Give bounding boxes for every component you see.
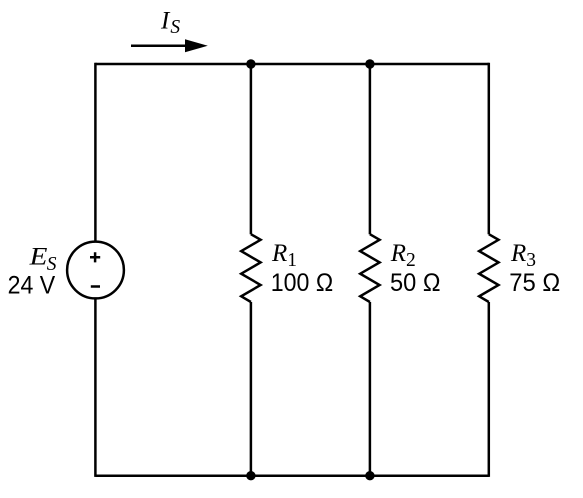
svg-text:R: R [271, 240, 287, 267]
svg-text:E: E [29, 244, 48, 271]
svg-text:100 Ω: 100 Ω [271, 269, 333, 297]
svg-text:75 Ω: 75 Ω [509, 269, 560, 297]
svg-text:R: R [510, 240, 526, 267]
svg-text:R: R [390, 240, 406, 267]
svg-text:50 Ω: 50 Ω [390, 269, 441, 297]
svg-text:S: S [170, 17, 180, 38]
svg-text:24 V: 24 V [8, 272, 56, 300]
